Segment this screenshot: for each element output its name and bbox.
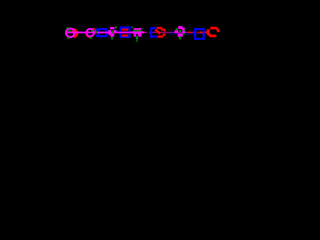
wire: dark red line inside square I bbox=[196, 32, 201, 33]
node H: green NW dot bbox=[176, 28, 178, 30]
wire: chain line purple to G8 bbox=[176, 32, 188, 33]
node A: red inner dot bbox=[72, 30, 75, 33]
node J: black notch top-left bbox=[207, 27, 210, 29]
node D: green dot NE bbox=[115, 26, 117, 28]
node B: green dot bottom bbox=[90, 37, 92, 39]
node A: green dot bottom bbox=[67, 37, 69, 39]
node A: ring 1 magenta bbox=[66, 29, 75, 38]
junction: small cluster red tick before square bbox=[95, 28, 96, 32]
node G: red right edge lower dash bbox=[163, 33, 165, 36]
node F: black center bottom dip bbox=[136, 34, 138, 36]
node B: ring 2 magenta bbox=[86, 29, 94, 37]
node J: red ring terminal (octagonal) bbox=[207, 27, 220, 38]
wire: chain line purple 2 bbox=[192, 32, 196, 33]
wire: chain line dark red bbox=[195, 32, 200, 33]
node G: blue square part (left) bbox=[151, 28, 157, 37]
node E: blue square bbox=[121, 28, 130, 38]
node A: green inner dot bbox=[68, 30, 71, 33]
node B: green inner right arc bbox=[91, 30, 93, 33]
node G: red bottom-right edge bbox=[157, 35, 163, 37]
node A: ring 1 red fringe ring right bbox=[74, 28, 79, 38]
wire: line over square E bbox=[120, 32, 132, 34]
node G: red top-right edge bbox=[157, 27, 163, 29]
node F: green inner band bbox=[134, 30, 141, 32]
junction: blue dot top bbox=[96, 29, 98, 31]
node J: black notch bottom-right bbox=[216, 32, 220, 36]
wire: chain line red dash bbox=[188, 32, 192, 33]
wire: line over flower F bbox=[133, 32, 145, 34]
node B: ring 2 red left arc bbox=[85, 30, 88, 36]
node G: red top-right diag bit bbox=[161, 28, 164, 30]
wire: purple dot before G7 bbox=[149, 32, 151, 34]
node D: green stem bbox=[111, 37, 113, 40]
junction: green tick bbox=[96, 30, 97, 33]
node F: magenta flower body bbox=[132, 28, 143, 37]
node A: ring 1 red bottom-left arc bbox=[68, 35, 74, 38]
node E: green dot NE bbox=[132, 26, 134, 28]
node A: green dot top-left bbox=[66, 27, 68, 29]
node B: ring 2 red bottom arc bbox=[86, 35, 92, 38]
node F: green dot top-right bbox=[142, 28, 143, 29]
wire: main chain line magenta bbox=[66, 32, 145, 34]
node H: green SE dot bbox=[183, 33, 185, 35]
wire: line over square C bbox=[97, 32, 107, 34]
node H: pinwheel 2 petals bbox=[175, 26, 186, 37]
node D: blue dot E bbox=[117, 30, 118, 31]
node F: green stem bbox=[136, 39, 138, 41]
node H: green center bbox=[179, 30, 182, 32]
node E: red inner top bar bbox=[122, 29, 129, 31]
node H: green E dot bbox=[184, 30, 186, 32]
node E: red inner bottom bar bbox=[122, 35, 129, 37]
node J: black hole bbox=[210, 29, 217, 34]
node I: blue square bbox=[195, 29, 204, 39]
node G: red right edge upper dash bbox=[164, 29, 166, 32]
wire: chain line red right bbox=[200, 32, 210, 34]
node H: green stem bbox=[179, 37, 181, 40]
node D: green center bbox=[112, 31, 114, 33]
node B: ring 2 red top-right bit bbox=[93, 28, 95, 30]
node D: magenta pinwheel petals bbox=[108, 27, 116, 37]
node G: red diagonal bbox=[155, 30, 160, 34]
wire: chain line purple after flower bbox=[145, 32, 148, 34]
node C: blue square bbox=[98, 29, 106, 36]
wire: navy parallel line under chain bbox=[170, 33, 203, 34]
junction: blue dot bottom bbox=[96, 35, 98, 37]
node F: green dot below bbox=[136, 37, 138, 40]
wire: chain line purple through G7 bbox=[152, 32, 176, 33]
